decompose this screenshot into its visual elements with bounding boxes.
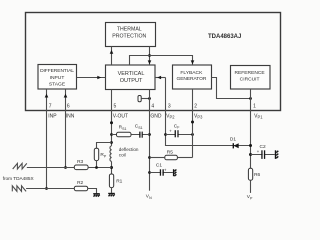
pin 3 wire VP2: feedback corner down then right along D1 wire [166,78,251,146]
capacitor C1 electrolytic [150,172,173,174]
wire R5 left to gnd line [150,157,165,159]
wire diff stage to vertical output [77,77,106,79]
svg-text:R3: R3 [77,159,83,165]
pin 2 wire VP3: flyback bottom down to R5 [192,89,194,158]
node CF right junction [191,133,194,136]
node CF left junction [164,133,167,136]
svg-text:FLYBACK: FLYBACK [180,70,203,76]
wire sawtooth2 to R2 [26,188,74,190]
svg-text:R5: R5 [167,149,173,155]
node snubber right end [148,133,151,136]
Rp branch wire [97,143,112,149]
wire R5 right to vp3 line [177,157,192,159]
flyback generator block [173,65,212,89]
ground sideways for C2 [276,150,279,159]
node on vp3 wire [191,121,194,124]
capacitor C2 electrolytic [251,154,275,156]
IC TDA4863AJ outer box [26,13,281,111]
svg-text:2: 2 [194,103,197,109]
svg-text:D1: D1 [230,137,236,143]
svg-text:REFERENCE: REFERENCE [235,70,266,76]
pin 4 wire GND vertical down to VN terminal [149,90,151,191]
sawtooth input 1 [13,163,27,169]
node junction gnd line [148,97,151,100]
wire R1 to ground [111,188,113,193]
svg-text:P1: P1 [258,115,264,120]
node C2 junction [249,153,252,156]
wire thermal bottom down into vertical output [149,47,151,66]
arrow up into diff stage pin6 [64,94,68,98]
svg-text:V-OUT: V-OUT [113,113,128,119]
wire flyback right side to vp1 node [212,78,251,99]
svg-text:coil: coil [119,153,126,158]
wire sawtooth1 to R3 [27,167,75,169]
svg-text:VERTICAL: VERTICAL [118,71,145,77]
wire R2 to ground [88,189,97,194]
svg-text:3: 3 [168,103,171,109]
svg-text:P2: P2 [170,115,176,120]
pin 1 wire VP1: reference bottom down to Vp terminal [250,89,252,168]
wire coil to R3 node [111,161,113,174]
node Rp branch junction [110,141,113,144]
svg-text:6: 6 [67,103,70,109]
resistor RP [94,148,98,160]
svg-text:from TDA485X: from TDA485X [3,176,35,181]
node junction pin7 wire on R2 wire [45,187,48,190]
reference circuit block [231,66,271,90]
arrow up into diff stage pin7 [45,94,49,98]
arrow down into vertical output [148,60,152,64]
node junction on thermal wire [148,54,151,57]
svg-text:INN: INN [66,113,75,119]
ground sideways for C1 [174,169,177,176]
svg-text:OUTPUT: OUTPUT [120,78,143,84]
svg-text:R1: R1 [116,178,122,184]
pin 7 wire INP: diff stage down to R2 wire [46,89,48,189]
node A on v-out line [110,121,113,124]
svg-text:DIFFERENTIAL: DIFFERENTIAL [40,68,74,74]
svg-text:INP: INP [48,113,57,119]
node snubber junction [110,133,113,136]
svg-text:C1: C1 [156,163,162,169]
resistor R1 [109,174,113,188]
node junction pin6 wire on R3 wire [64,166,67,169]
sawtooth input 2 [12,186,26,192]
svg-text:R2: R2 [77,180,83,186]
svg-text:CIRCUIT: CIRCUIT [240,76,260,82]
differential input stage block [38,65,77,90]
svg-text:5: 5 [114,103,117,109]
wire R6 to Vp terminal [250,180,252,193]
svg-text:R6: R6 [254,172,260,178]
arrow up into thermal protection [110,50,114,54]
diode D1 [230,137,239,149]
node R5 left end [148,156,151,159]
svg-text:TDA4863AJ: TDA4863AJ [208,34,241,40]
small sense element on gnd line inside IC [138,96,141,102]
resistor R2 [74,186,87,191]
svg-text:STAGE: STAGE [49,81,66,87]
wire sense element to gnd line [141,98,149,100]
arrow down into flyback generator [191,60,195,64]
svg-text:P3: P3 [197,115,203,120]
svg-text:N: N [149,196,152,200]
wire vertical-output top to thermal bottom [111,47,113,66]
arrow left into vertical output [157,76,161,80]
snubber wire v-out to gnd [112,134,150,136]
vertical output block [106,65,156,90]
resistor R3 [74,165,88,170]
capacitor CF electrolytic [166,134,193,136]
svg-text:INPUT: INPUT [50,75,65,81]
svg-text:THERMAL: THERMAL [117,27,142,33]
capacitor CS1 [140,132,142,138]
thermal protection block [106,23,156,47]
svg-text:PROTECTION: PROTECTION [112,34,146,40]
svg-text:C2: C2 [260,144,266,150]
svg-text:GND: GND [150,113,162,119]
resistor R6 [248,168,252,180]
svg-text:S1: S1 [122,127,126,131]
node C1 left end [148,171,151,174]
rail wire vertical-output to flyback [130,56,193,66]
pin 6 wire INN: diff stage down to R3 wire [65,89,67,168]
resistor R5 [165,155,178,160]
arrow right into vertical output [97,76,101,80]
wire R3 to v-out line [88,167,111,169]
node junction Rp bottom [95,166,98,169]
pin 5 wire V-OUT vertical [111,90,113,146]
svg-text:deflection: deflection [119,147,139,152]
node junction vp1 inside IC [249,97,252,100]
ground under R2 [93,194,100,197]
svg-text:S1: S1 [138,126,142,130]
wire Rp bottom to R3 wire [96,161,98,168]
svg-text:1: 1 [253,103,256,109]
resistor RS1 [117,132,132,137]
deflection coil [110,146,112,162]
node junction R3 right end [110,166,113,169]
node D1 junction [249,144,252,147]
ground under R1 [108,194,115,197]
svg-text:7: 7 [49,103,52,109]
svg-text:GENERATOR: GENERATOR [176,76,206,82]
svg-text:4: 4 [151,103,154,109]
wire vp2 feedback into vertical output [155,77,166,79]
